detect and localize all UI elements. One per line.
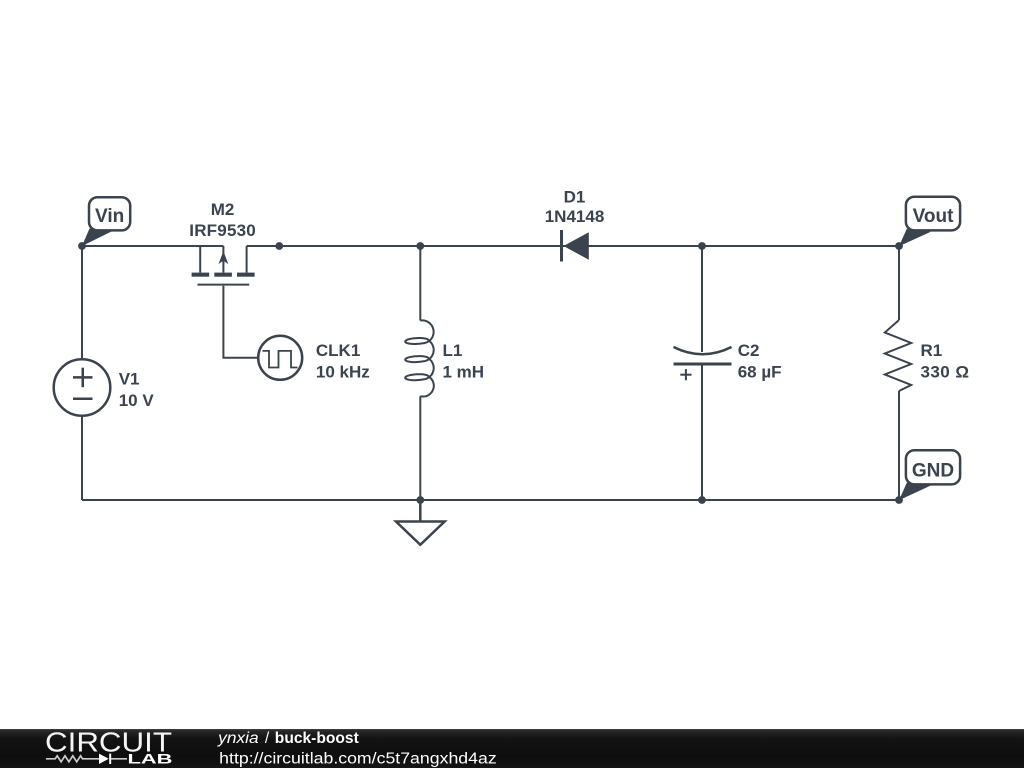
- node flag Vin: [82, 197, 130, 246]
- wire right rail lower (R1 to GND node): [898, 391, 900, 500]
- svg-text:10 V: 10 V: [119, 391, 155, 410]
- svg-text:IRF9530: IRF9530: [189, 221, 256, 240]
- label M2 IRF9530: [189, 200, 256, 240]
- wire M2 gate to CLK1: [223, 286, 258, 358]
- svg-text:/: /: [265, 730, 270, 747]
- voltage source V1: [54, 359, 111, 416]
- capacitor C2: [674, 347, 732, 380]
- clock source CLK1: [258, 336, 302, 380]
- svg-text:1 mH: 1 mH: [443, 363, 485, 382]
- svg-text:Vin: Vin: [95, 206, 124, 227]
- svg-text:CLK1: CLK1: [316, 341, 360, 360]
- wire left rail upper (Vin node to V1 top): [81, 246, 83, 359]
- node flag Vout: [899, 197, 960, 247]
- label C2 68 uF: [738, 341, 782, 382]
- svg-text:ynxia: ynxia: [217, 730, 259, 747]
- wire right rail upper (Vout node to R1): [898, 246, 900, 320]
- svg-text:M2: M2: [211, 200, 235, 219]
- wire C2 top lead: [701, 246, 703, 352]
- node ground junction: [416, 496, 424, 504]
- node M2 drain: [275, 242, 283, 250]
- svg-text:V1: V1: [119, 370, 140, 389]
- wire top rail left segment (Vin node to M2 source/arrow): [82, 245, 223, 247]
- svg-text:1N4148: 1N4148: [545, 207, 605, 226]
- node GND: [895, 496, 903, 504]
- wire left rail lower (V1 bottom to bottom rail): [81, 416, 83, 500]
- junction node dots: [78, 242, 903, 504]
- wire L1 bottom lead: [419, 396, 421, 500]
- label V1 10 V: [119, 370, 155, 411]
- wire C2 bottom lead: [701, 364, 703, 500]
- label D1 1N4148: [545, 188, 605, 227]
- svg-text:R1: R1: [921, 341, 943, 360]
- node flag GND: [899, 450, 960, 500]
- svg-text:buck-boost: buck-boost: [275, 730, 359, 747]
- label L1 1 mH: [443, 341, 485, 382]
- svg-text:330 Ω: 330 Ω: [921, 363, 970, 382]
- wire bottom rail: [82, 499, 899, 501]
- svg-text:GND: GND: [912, 461, 954, 482]
- logo resistor zigzag: [46, 756, 99, 762]
- node C2 bottom: [698, 496, 706, 504]
- svg-text:Vout: Vout: [913, 206, 954, 227]
- logo diode: [99, 754, 109, 764]
- svg-text:C2: C2: [738, 341, 760, 360]
- wire top rail right segment (M2 drain to Vout node): [247, 245, 899, 247]
- node L1 top: [416, 242, 424, 250]
- svg-text:68 µF: 68 µF: [738, 363, 782, 382]
- label R1 330 ohm: [921, 341, 970, 382]
- svg-text:D1: D1: [564, 188, 586, 207]
- resistor R1: [885, 320, 911, 391]
- svg-text:http://circuitlab.com/c5t7angx: http://circuitlab.com/c5t7angxhd4az: [219, 751, 497, 768]
- label CLK1 10 kHz: [316, 341, 370, 382]
- node Vin: [78, 242, 86, 250]
- transistor M2 (P-MOSFET IRF9530): [198, 246, 250, 285]
- svg-text:L1: L1: [443, 341, 463, 360]
- ground symbol: [396, 500, 445, 545]
- wire L1 top lead: [419, 246, 421, 321]
- inductor L1 coil: [405, 320, 434, 396]
- svg-text:10 kHz: 10 kHz: [316, 363, 370, 382]
- diode D1: [562, 230, 589, 262]
- node Vout: [895, 242, 903, 250]
- svg-text:LAB: LAB: [128, 751, 173, 767]
- footer bar: [0, 729, 1024, 768]
- node C2 top: [698, 242, 706, 250]
